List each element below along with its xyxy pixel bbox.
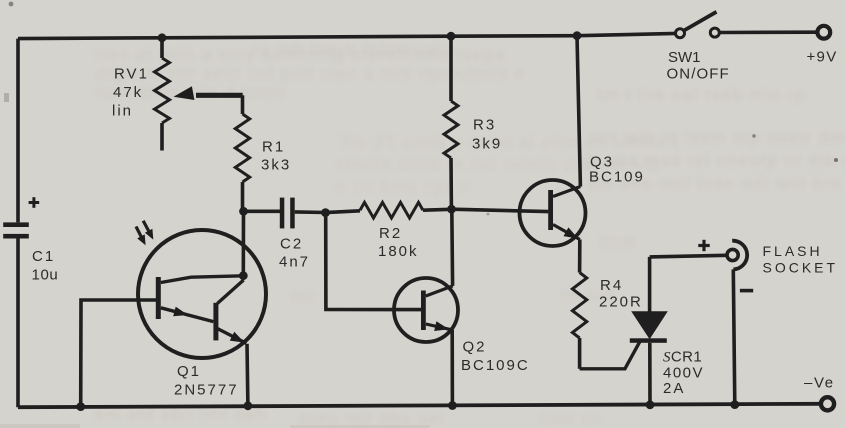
svg-text:lt eoa msd rel oheutp or mb a: lt eoa msd rel oheutp or mb a tlebem os [588,151,845,170]
wire SW1 to +9V terminal [720,30,816,34]
svg-text:3k9: 3k9 [472,136,502,153]
svg-text:C2: C2 [280,236,303,253]
Q3 collector lead [553,187,580,197]
svg-text:2N5777: 2N5777 [174,382,239,399]
Q2 collector lead [426,286,453,296]
wire C2 to node B [295,210,326,214]
Q1 first transistor collector lead [161,276,244,283]
node top rail R3 junction [447,32,456,41]
resistor R2 [326,202,452,218]
svg-text:FLASH: FLASH [763,243,823,259]
node top rail Q3 collector junction [573,31,582,40]
terminal -Ve [821,397,834,410]
svg-text:lin: lin [112,103,133,120]
wire R4 to SCR1 gate [580,341,640,369]
svg-text:2A: 2A [663,380,685,397]
node C junction (R3/R2/Q2 collector/Q3 base) [447,205,456,214]
svg-text:R4: R4 [600,277,623,294]
Q1 first transistor base bar [156,277,161,319]
wire Q3 collector to +9V rail [577,36,580,187]
node 0V rail Q1 emitter junction [244,401,253,410]
C1 polarity + sign [29,197,40,208]
svg-text:400V: 400V [663,365,704,382]
node A junction (R1/C2/Q1 collector) [239,207,248,216]
node top rail RV1 junction [158,33,167,42]
wire flash socket - to 0V rail [733,269,735,404]
node 0V rail Q1 base junction [76,402,85,411]
Q1 incident light arrows [136,221,153,245]
Q1 first transistor emitter lead with arrow [161,307,214,322]
node 0V rail SCR1 cathode junction [646,400,655,409]
Q1 second transistor collector lead [217,280,243,304]
svg-text:BC109C: BC109C [461,357,530,374]
svg-text:lsmt en: lsmt en [540,411,602,428]
Q3 base bar [548,190,553,230]
wire Q1 emitter to 0V rail [245,344,249,406]
transistor Q3 envelope [520,180,586,246]
wire SCR1 anode to flash socket + [650,255,727,257]
svg-text:ON/OFF: ON/OFF [667,66,730,83]
svg-text:220R: 220R [599,294,643,311]
flash socket + label [698,240,709,251]
wire Q1 base lead to 0V rail [81,300,157,407]
svg-text:3k3: 3k3 [261,157,291,174]
node 0V rail flash socket junction [730,400,739,409]
node B junction (C2/R2/Q2 base) [321,208,330,217]
node 0V rail Q2 emitter junction [448,401,457,410]
svg-text:lDtR: lDtR [600,235,637,252]
resistor R4 [572,240,586,369]
svg-text:R2: R2 [379,225,402,242]
wire node A to C2 [244,210,281,214]
wire C1 to 0V rail [16,239,20,408]
svg-text:47k: 47k [113,84,143,101]
switch SW1 [676,12,720,38]
capacitor C2 [280,198,295,229]
wire Q2 emitter to 0V rail [450,330,454,406]
transistor Q1 photo-darlington envelope [138,230,266,358]
wire 0V bottom rail [18,404,821,407]
RV1 wiper arrow [174,86,243,100]
resistor R1 [235,95,249,211]
svg-text:+9V: +9V [807,49,838,66]
transistor Q2 envelope [394,278,458,342]
potentiometer RV1 [155,38,170,151]
svg-text:180k: 180k [378,243,419,260]
svg-text:tm t lne oal tseb mlo rp: tm t lne oal tseb mlo rp [598,85,806,104]
Q3 emitter lead with arrow [553,225,580,240]
svg-text:R1: R1 [262,139,285,156]
Q1 second transistor emitter lead with arrow [217,329,246,344]
svg-text:RV1: RV1 [114,66,149,83]
svg-text:otn mlb lq lsem otp noelr dm t: otn mlb lq lsem otp noelr dm tb oeh [590,128,845,147]
Q2 base bar [421,291,426,331]
svg-text:C1: C1 [32,248,55,265]
wire node B down and right to Q2 base [326,213,422,310]
svg-text:4n7: 4n7 [279,254,310,271]
svg-text:BC109: BC109 [589,169,645,186]
svg-text:–Ve: –Ve [804,375,835,392]
svg-text:R3: R3 [473,117,496,134]
wire Q2 collector to node C [450,209,454,286]
terminal +9V [817,26,830,39]
resistor R3 [444,36,458,209]
wire left branch from +9V rail down to C1 [16,39,20,223]
flash socket - label [740,289,753,293]
svg-text:SCR1: SCR1 [663,349,702,366]
Q2 emitter lead with arrow [426,321,451,331]
node Q1 collectors junction [239,271,248,280]
capacitor C1 [3,222,29,238]
svg-text:ries dt with a elny oemtmrlg o: ries dt with a elny oemtmrlg otprelchme … [96,45,506,64]
svg-text:Q2: Q2 [463,339,487,356]
thyristor SCR1 [630,257,668,405]
Q1 second transistor base bar [213,303,218,341]
svg-text:10u: 10u [32,267,59,284]
wire node C to Q3 base [452,209,549,211]
wire +9V top rail [18,33,676,38]
svg-text:mlt: mlt [290,289,316,306]
flash socket connector [727,241,747,270]
wire Q1 collector to node A [242,211,246,275]
svg-text:Q1: Q1 [177,363,201,380]
svg-text:SOCKET: SOCKET [763,260,839,276]
svg-text:SW1: SW1 [668,49,701,66]
